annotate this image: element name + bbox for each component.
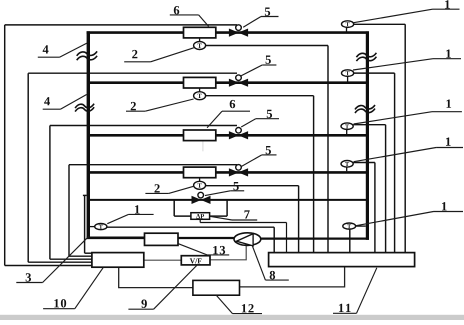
label 2 (meter T row 4) (154, 184, 159, 192)
valve 5 row 1 (229, 29, 247, 36)
wire: supply riser bottom header to box 13 (87, 237, 145, 240)
wire: controller to main valve row 5 (83, 194, 87, 196)
label 1 (return T sensor) (442, 202, 447, 210)
wire: riser T sensor row 4 to box 11 (353, 162, 375, 164)
wire: header from box 13 to pump (178, 237, 234, 239)
supply riser pipe (4) (87, 31, 90, 237)
label 9 (141, 300, 146, 308)
label 6 (heat meter row 1) (174, 6, 179, 14)
pipe break supply riser lower (4) (75, 104, 94, 108)
wire: riser T sensor row 1 to box 11 (354, 23, 406, 25)
riser T sensor 1 row 2 (347, 76, 349, 81)
return T sensor 1 (bottom right) (343, 223, 356, 229)
wire: bypass to dP sensor right (226, 200, 228, 216)
label 1 (riser T row 3) (446, 100, 451, 108)
wire: branch pipe row 2 (88, 81, 367, 84)
wire: controller to valve row 4 (69, 164, 237, 166)
box 13 (heat exchanger) (145, 233, 179, 245)
label 13 (213, 246, 218, 254)
label 1 (riser T row 2) (446, 50, 451, 58)
label 5 (valve row 1) (265, 8, 270, 16)
wire: dP sensor to box 11 (199, 219, 201, 222)
pump 8 (234, 233, 261, 246)
wire: bypass to dP sensor left (173, 200, 175, 216)
wire: bypass pipe row 5 (88, 199, 366, 201)
valve 5 row 2 (229, 79, 247, 86)
label 12 (242, 304, 247, 312)
label 5 (valve row 2) (266, 56, 271, 64)
V/F converter 9 (181, 256, 210, 265)
label 4 (riser lower) (44, 97, 50, 105)
wire: meter T sensor row 1 to box 11 (205, 45, 328, 47)
label 10 (54, 299, 59, 307)
wire: branch pipe row 3 (88, 134, 367, 137)
pipe break supply riser upper (4) (77, 51, 97, 55)
wire: supply T sensor to box 11 (90, 226, 95, 228)
wire: meter T sensor row 2 to box 11 (205, 95, 313, 97)
riser T sensor 1 row 3 (346, 129, 348, 134)
label 1 (riser T row 1) (445, 0, 450, 8)
riser T sensor 1 row 4 (346, 167, 348, 171)
label 1 (riser T row 4) (446, 137, 451, 145)
return riser pipe (366, 31, 369, 240)
valve 5 row 4 (229, 169, 247, 176)
wire: pump outlet to return riser (261, 238, 369, 240)
wire: return T sensor to box 11 (356, 225, 366, 227)
valve 5 row 3 (229, 132, 247, 139)
scan artifact: bottom gray band (0, 315, 464, 320)
pipe break return riser lower (355, 105, 375, 109)
meter T sensor 2 (1) (199, 38, 201, 42)
pipe break return riser upper (356, 53, 376, 57)
label 1 (supply T sensor) (135, 205, 140, 213)
wire: riser T sensor row 2 to box 11 (354, 72, 395, 74)
heat meter 6 row 3 (184, 130, 216, 141)
label 2 (meter T row 2) (131, 102, 136, 110)
heat meter 6 row 4 (184, 167, 216, 178)
supply T sensor 1 (bottom left) (95, 224, 107, 230)
meter T sensor 2 (2) (199, 88, 201, 92)
meter T sensor 2 (3) (199, 178, 201, 182)
heat meter 6 row 1 (184, 27, 216, 38)
wire: controller to valve row 3 (50, 125, 237, 127)
wire: V/F converter to pump (210, 245, 246, 259)
wire: faded sensor stem row 3 (202, 141, 204, 152)
wire: branch pipe row 4 (88, 171, 367, 174)
label 11 (339, 304, 344, 312)
label 7 (dP sensor) (244, 210, 249, 218)
label 5 (main valve) (233, 182, 238, 190)
label 2 (meter T row 1) (132, 50, 137, 58)
wire: box 12 to box 11 (240, 267, 345, 287)
label 4 (riser upper) (43, 45, 49, 53)
label 6 (heat meter row 3) (230, 100, 235, 108)
wire: controller to valve row 1 (5, 24, 237, 26)
wire: riser T sensor row 3 to box 11 (353, 124, 385, 126)
heat meter 6 row 2 (184, 77, 216, 88)
wire: branch pipe row 1 (87, 31, 369, 34)
box 10 (heat controller) (92, 253, 144, 268)
label 8 (pump) (270, 271, 275, 279)
main valve 5 row 5 (192, 196, 210, 203)
wire: meter T sensor row 4 to box 11 (205, 185, 298, 187)
label 5 (valve row 3) (267, 110, 272, 118)
dP sensor 7 (191, 213, 210, 220)
wire: box 10 to V/F converter (144, 259, 182, 261)
label 5 (valve row 4) (266, 146, 271, 154)
wire: box 10 to box 12 (119, 267, 193, 287)
riser T sensor 1 row 1 (346, 27, 348, 31)
box 12 (193, 280, 240, 295)
label 3 (26, 273, 31, 281)
wire: controller to valve row 2 (28, 72, 237, 74)
box 11 (data collector) (269, 253, 415, 267)
